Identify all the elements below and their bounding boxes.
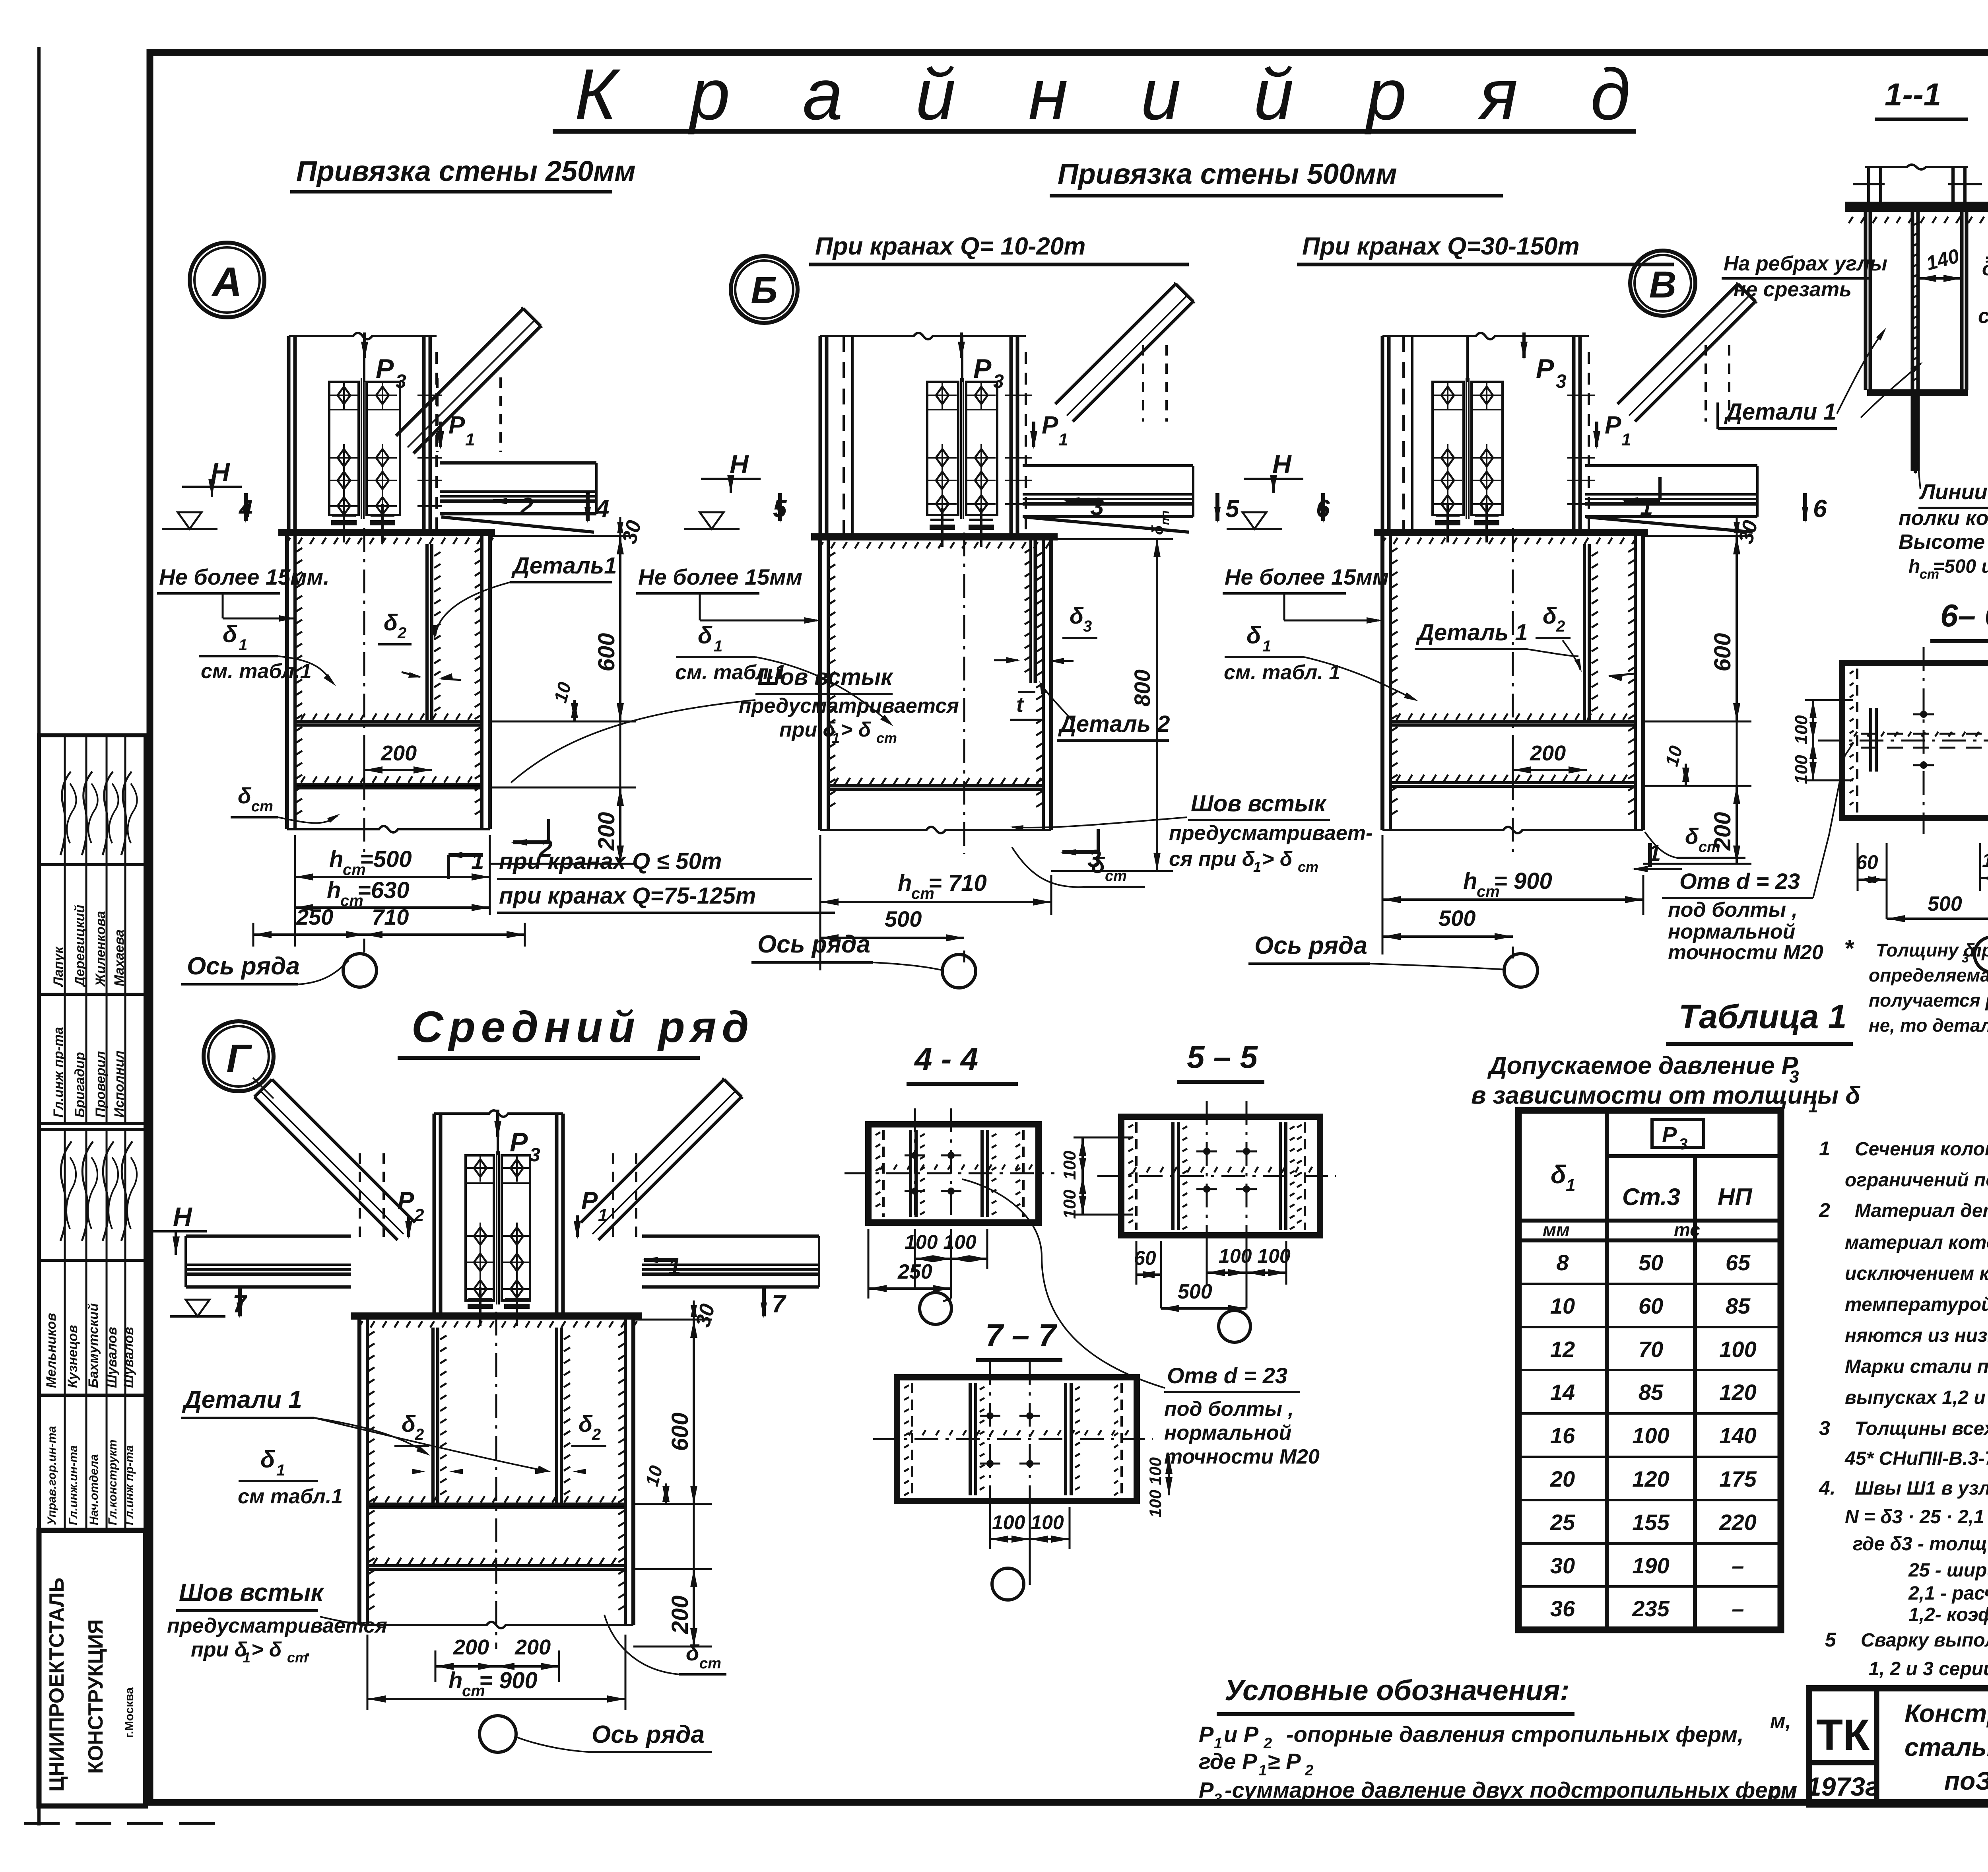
node A: section mark 1 bottom xyxy=(447,848,484,879)
node V: anchor bolts xyxy=(1435,504,1499,542)
svg-text:см. табл. 1: см. табл. 1 xyxy=(1224,661,1340,684)
table 2 footnote xyxy=(1844,935,1988,1036)
svg-text:1: 1 xyxy=(1258,1762,1267,1779)
node A: label delta1 см.табл.1 xyxy=(199,621,336,686)
svg-text:δ: δ xyxy=(238,783,252,808)
svg-text:Р: Р xyxy=(510,1127,528,1157)
svg-text:Р: Р xyxy=(581,1187,598,1215)
node V: label Не более 15мм xyxy=(1223,564,1389,624)
svg-text:Ось ряда: Ось ряда xyxy=(592,1721,705,1748)
svg-text:3: 3 xyxy=(1083,618,1092,635)
node A: upper column and splice xyxy=(289,333,437,529)
svg-text:принимать не менее 10мм Если р: принимать не менее 10мм Если разность, xyxy=(1971,940,1988,960)
svg-text:Бригадир: Бригадир xyxy=(72,1052,87,1118)
svg-text:Исполнил: Исполнил xyxy=(112,1050,127,1118)
svg-text:4.: 4. xyxy=(1819,1477,1836,1499)
svg-text:3: 3 xyxy=(1213,1791,1222,1808)
svg-text:Отв d = 23: Отв d = 23 xyxy=(1679,869,1800,894)
node G: label Шов встык xyxy=(167,1579,387,1666)
svg-text:1973г: 1973г xyxy=(1807,1772,1879,1801)
svg-text:30: 30 xyxy=(1550,1553,1575,1578)
svg-text:175: 175 xyxy=(1719,1466,1757,1491)
node A: load arrow P1 xyxy=(437,412,475,449)
svg-text:выпусках 1,2 и 3 серии 1.424-2: выпусках 1,2 и 3 серии 1.424-2. xyxy=(1845,1387,1988,1408)
svg-text:Махаева: Махаева xyxy=(112,929,127,986)
svg-text:Отв d = 23: Отв d = 23 xyxy=(1167,1363,1287,1388)
node V: lower column box xyxy=(1382,528,1643,854)
svg-text:2,1 - расчетное сопротивлени: 2,1 - расчетное сопротивление стали 3 в … xyxy=(1908,1583,1988,1604)
node A: dim 200 inner xyxy=(364,741,432,780)
node G: cap plate xyxy=(351,1312,642,1328)
section 5-5 axis circle xyxy=(1219,1310,1250,1342)
svg-text:2: 2 xyxy=(519,493,533,521)
node B: anchor bolts xyxy=(930,508,994,547)
node B: datum H left xyxy=(684,449,761,529)
svg-text:ся при δ: ся при δ xyxy=(1169,848,1255,871)
svg-text:250: 250 xyxy=(897,1260,932,1283)
svg-text:ст: ст xyxy=(251,798,273,815)
node circle А xyxy=(190,243,264,317)
svg-text:нормальной: нормальной xyxy=(1164,1421,1291,1444)
node A: cap plate xyxy=(278,529,495,544)
svg-text:К р а й н и й р я д: К р а й н и й р я д xyxy=(575,54,1657,135)
svg-text:60: 60 xyxy=(1856,851,1878,873)
node A: lower column box xyxy=(287,528,490,853)
svg-text:3: 3 xyxy=(1962,951,1969,965)
svg-text:85: 85 xyxy=(1639,1380,1664,1405)
svg-text:Н: Н xyxy=(173,1202,192,1231)
svg-text:Бахмутский: Бахмутский xyxy=(86,1303,101,1388)
svg-text:Р: Р xyxy=(973,354,992,384)
subtitle При кранах Q=10-20т xyxy=(809,233,1189,264)
svg-text:1: 1 xyxy=(276,1462,285,1479)
svg-text:3: 3 xyxy=(530,1145,540,1166)
svg-text:δ: δ xyxy=(579,1411,593,1437)
section 5-5 dims xyxy=(1060,1137,1291,1312)
svg-text:Не более 15мм: Не более 15мм xyxy=(1225,564,1389,589)
svg-text:Н: Н xyxy=(1272,449,1292,479)
node V: flange bolt ticks xyxy=(1567,395,1595,504)
svg-text:Жиленкова: Жиленкова xyxy=(93,911,108,987)
svg-text:600: 600 xyxy=(594,633,619,672)
svg-text:Р: Р xyxy=(1536,354,1554,384)
svg-text:Марки стали принимаются по ука: Марки стали принимаются по указаниям, пр… xyxy=(1845,1356,1988,1377)
svg-text:N = δ3 · 25 · 2,1 · 1.2,: N = δ3 · 25 · 2,1 · 1.2, xyxy=(1845,1507,1988,1528)
svg-text:-опорные давления стропильных: -опорные давления стропильных ферм, xyxy=(1286,1722,1744,1747)
section 5-5 plate xyxy=(1097,1101,1336,1251)
svg-text:16: 16 xyxy=(1550,1423,1575,1448)
node A: anchor bolts xyxy=(331,504,395,542)
svg-text:Ст.3: Ст.3 xyxy=(1622,1184,1680,1210)
svg-text:h: h xyxy=(1908,556,1920,577)
node V: load arrow P3 xyxy=(1520,332,1567,392)
svg-text:Р: Р xyxy=(376,354,394,384)
svg-text:2: 2 xyxy=(592,1426,601,1443)
svg-text:и Р: и Р xyxy=(1224,1722,1259,1747)
svg-text:1: 1 xyxy=(1640,494,1653,520)
svg-text:100: 100 xyxy=(1632,1423,1669,1448)
svg-text:250: 250 xyxy=(296,904,333,929)
svg-text:155: 155 xyxy=(1632,1510,1670,1535)
svg-text:14: 14 xyxy=(1550,1380,1575,1405)
node B: label δ3 xyxy=(994,603,1097,664)
section title 7-7 xyxy=(976,1318,1062,1360)
svg-text:Р: Р xyxy=(1662,1122,1677,1147)
svg-text:100: 100 xyxy=(1719,1337,1756,1362)
section 4-4 dims xyxy=(868,1229,987,1299)
svg-text:65: 65 xyxy=(1726,1250,1751,1275)
svg-text:δ: δ xyxy=(1149,525,1167,535)
svg-text:поЗстропильных ферм: поЗстропильных ферм xyxy=(1944,1767,1988,1795)
svg-text:пп: пп xyxy=(1159,510,1172,525)
svg-text:200: 200 xyxy=(381,741,417,765)
svg-text:1,2- коэффициент запаса пр: 1,2- коэффициент запаса прочности. xyxy=(1908,1604,1988,1625)
svg-text:где δ3 - толщина Детали 2: где δ3 - толщина Детали 2 в см; xyxy=(1853,1534,1988,1555)
node A: axis circle and label xyxy=(181,953,377,987)
svg-text:2: 2 xyxy=(397,624,406,642)
svg-text:точности М20: точности М20 xyxy=(1668,941,1823,964)
svg-text:рм: рм xyxy=(1768,1780,1796,1803)
node A: label Не более 15мм xyxy=(157,564,330,622)
svg-text:500: 500 xyxy=(1928,892,1962,916)
svg-text:Детали 1: Детали 1 xyxy=(182,1386,302,1413)
svg-text:ст: ст xyxy=(1105,868,1127,884)
svg-text:190: 190 xyxy=(1632,1553,1669,1578)
node B: flange bolt ticks xyxy=(1005,395,1032,504)
table 1 header cells xyxy=(1543,1120,1753,1240)
svg-text:5 – 5: 5 – 5 xyxy=(1187,1039,1258,1075)
node B: label Не более 15мм xyxy=(636,564,820,624)
svg-text:120: 120 xyxy=(1632,1466,1669,1491)
svg-text:3: 3 xyxy=(993,371,1004,392)
svg-text:100 100: 100 100 xyxy=(1982,849,1988,871)
node A: section mark 2 bottom xyxy=(511,819,552,863)
node A: flange bolt ticks xyxy=(417,395,442,506)
svg-text:при кранах Q=75-125т: при кранах Q=75-125т xyxy=(499,883,756,909)
node A: section mark 2 top xyxy=(491,493,533,521)
svg-text:1: 1 xyxy=(239,636,247,654)
node V: datum H left xyxy=(1227,449,1303,529)
svg-text:δ: δ xyxy=(1543,603,1557,629)
svg-text:мм: мм xyxy=(1543,1219,1570,1240)
svg-text:235: 235 xyxy=(1632,1596,1670,1621)
svg-text:3: 3 xyxy=(1556,371,1567,392)
svg-text:1: 1 xyxy=(598,1205,608,1225)
svg-text:> δ: > δ xyxy=(251,1638,282,1661)
section 7-7 axis circle xyxy=(992,1568,1024,1600)
svg-text:800: 800 xyxy=(1130,669,1155,706)
svg-text:100 100: 100 100 xyxy=(1146,1457,1165,1518)
svg-text:*: * xyxy=(1844,935,1854,962)
node V: section mark 1 bottom xyxy=(1632,840,1682,872)
node G: roof beam right xyxy=(642,1236,819,1287)
node A: section mark 4 left xyxy=(238,493,252,523)
label Детали 1 for section 1-1 xyxy=(1837,328,1923,418)
svg-text:-суммарное давление двух подст: -суммарное давление двух подстропильных … xyxy=(1225,1777,1797,1802)
svg-text:2: 2 xyxy=(1556,618,1565,635)
section 7-7 plate xyxy=(873,1361,1153,1517)
node G: bottom dims 200 200 hст=900 xyxy=(367,1635,625,1710)
svg-text:не срезать: не срезать xyxy=(1734,278,1852,301)
svg-text:=500: =500 xyxy=(360,846,412,872)
svg-text:см. табл.1: см. табл.1 xyxy=(201,660,312,683)
node V: right dims 30-600-200-10 xyxy=(1643,517,1763,864)
svg-text:Гл.инж пр-та: Гл.инж пр-та xyxy=(51,1027,66,1118)
title block TK xyxy=(1816,1711,1870,1759)
node G: right dims 30-600-10-200 xyxy=(633,1300,720,1647)
svg-text:Не более 15мм: Не более 15мм xyxy=(638,564,802,589)
node V: load arrow P1 xyxy=(1593,412,1631,449)
node V: label Детали 1 top right xyxy=(1718,399,1837,429)
node B: section mark 3 bottom xyxy=(1060,829,1101,873)
title block frame xyxy=(1809,1688,1988,1804)
svg-text:Конструктивное решение оголовк: Конструктивное решение оголовков xyxy=(1905,1699,1988,1728)
svg-text:85: 85 xyxy=(1726,1293,1751,1318)
node V: dim 200 inner xyxy=(1513,741,1587,780)
svg-text:2: 2 xyxy=(1819,1199,1830,1221)
svg-text:4 - 4: 4 - 4 xyxy=(914,1041,978,1077)
table 1 grid xyxy=(1518,1110,1781,1630)
svg-text:25: 25 xyxy=(1550,1510,1575,1535)
svg-text:материал которой принимается п: материал которой принимается по материал… xyxy=(1845,1232,1988,1253)
svg-text:t: t xyxy=(1016,693,1024,717)
svg-text:500: 500 xyxy=(1439,906,1475,931)
svg-text:Р: Р xyxy=(1605,412,1621,439)
svg-text:ЦНИИПРОЕКТСТАЛЬ: ЦНИИПРОЕКТСТАЛЬ xyxy=(45,1578,68,1792)
svg-text:=630: =630 xyxy=(357,877,410,903)
node A: bottom dims hст xyxy=(253,835,525,953)
notes text block xyxy=(1819,1137,1988,1680)
svg-text:Деталь1: Деталь1 xyxy=(511,553,617,579)
node G: roof beam left xyxy=(186,1236,351,1287)
svg-text:Линии обреза: Линии обреза xyxy=(1919,480,1988,504)
svg-text:δ: δ xyxy=(260,1446,275,1473)
node V: label Деталь 1 inside xyxy=(1415,620,1578,656)
node V: roof beam right xyxy=(1585,466,1757,532)
svg-text:2: 2 xyxy=(1305,1762,1313,1779)
svg-text:нормальной: нормальной xyxy=(1668,920,1795,943)
svg-text:Средний ряд: Средний ряд xyxy=(412,1003,755,1052)
node B: load arrow P1 xyxy=(1030,412,1068,449)
svg-text:Г: Г xyxy=(226,1036,252,1081)
svg-text:δ: δ xyxy=(1070,603,1084,629)
node B: diagonal brace xyxy=(1055,282,1195,422)
svg-text:полки колонны при: полки колонны при xyxy=(1899,507,1988,530)
svg-text:7: 7 xyxy=(772,1291,786,1318)
svg-text:.: . xyxy=(305,1638,311,1661)
subtitle Привязка стены 500мм xyxy=(1050,158,1503,196)
svg-text:100 100: 100 100 xyxy=(1219,1245,1291,1267)
node V: axis circle and label xyxy=(1248,932,1538,987)
svg-text:Материал деталей-сталь типа „С: Материал деталей-сталь типа „Сталь3“, за… xyxy=(1855,1200,1988,1221)
svg-text:Н: Н xyxy=(730,449,749,479)
node B: label δст bottom xyxy=(1012,847,1145,887)
svg-text:няются из низколегированной ст: няются из низколегированной стали. xyxy=(1845,1325,1988,1346)
node G: section mark 7 left xyxy=(233,1289,247,1318)
svg-text:100: 100 xyxy=(1060,1151,1079,1180)
svg-text:100: 100 xyxy=(1792,715,1811,745)
svg-text:Ось ряда: Ось ряда xyxy=(187,953,300,980)
svg-text:100: 100 xyxy=(1792,755,1811,784)
svg-text:δ: δ xyxy=(402,1411,416,1437)
left stamp: institute name block xyxy=(39,1530,146,1806)
svg-text:ст: ст xyxy=(699,1655,721,1672)
node B: section mark 5 right xyxy=(1214,493,1240,523)
node B: upper column and splice xyxy=(820,333,1026,533)
label Торцы деталей 1 и 2 строгать xyxy=(1978,207,1988,328)
node V: section mark 6 right xyxy=(1802,493,1827,523)
svg-text:200: 200 xyxy=(1530,741,1566,765)
svg-text:12: 12 xyxy=(1550,1337,1575,1362)
svg-text:определяемая по приведенным в: определяемая по приведенным в таблице фо… xyxy=(1869,965,1988,986)
svg-text:не, то деталь 2 не предусматр: не, то деталь 2 не предусматривается xyxy=(1869,1015,1988,1036)
node G: datum H left xyxy=(145,1202,225,1316)
node G: label δст xyxy=(604,1615,726,1674)
svg-text:1: 1 xyxy=(1566,1176,1575,1195)
svg-text:при кранах Q ≤ 50т: при кранах Q ≤ 50т xyxy=(499,848,722,874)
svg-text:10: 10 xyxy=(1550,1293,1575,1318)
node V: upper column and splice xyxy=(1382,333,1589,529)
node B: axis circle and label xyxy=(751,931,976,988)
svg-text:предусматривает-: предусматривает- xyxy=(1169,822,1373,845)
node A: crane capacity labels xyxy=(497,848,835,913)
svg-text:Деталь 2: Деталь 2 xyxy=(1058,711,1170,737)
svg-text:Привязка стены 250мм: Привязка стены 250мм xyxy=(296,156,636,187)
node G: label delta1 xyxy=(238,1446,343,1508)
node A: datum H and level mark xyxy=(162,457,242,529)
svg-text:предусматривается: предусматривается xyxy=(739,694,959,717)
left stamp: rotated job titles and names xyxy=(44,772,137,1525)
svg-text:5: 5 xyxy=(1825,1629,1837,1651)
svg-text:δ: δ xyxy=(686,1640,700,1665)
svg-text:–: – xyxy=(1732,1553,1744,1578)
subtitle Привязка стены 250мм xyxy=(290,156,636,192)
svg-text:≥ Р: ≥ Р xyxy=(1268,1749,1301,1774)
node V: label δст xyxy=(1645,824,1745,858)
svg-text:На ребрах углы: На ребрах углы xyxy=(1724,252,1887,275)
node A: section mark 4 right xyxy=(584,493,609,523)
svg-text:ограничений по высоте стенки,: ограничений по высоте стенки, приведенны… xyxy=(1845,1170,1988,1191)
node G: anchor bolts xyxy=(468,1287,530,1326)
svg-text:строгать: строгать xyxy=(1978,305,1988,328)
node G: labels delta2 xyxy=(394,1411,606,1474)
node V: label На ребрах углы не срезать xyxy=(1722,252,1887,301)
node A: roof beam right xyxy=(440,463,596,532)
svg-text:Ось ряда: Ось ряда xyxy=(1254,932,1367,959)
svg-text:м,: м, xyxy=(1770,1710,1791,1733)
node G: upper column and splice xyxy=(434,1110,563,1312)
svg-text:δ: δ xyxy=(1685,824,1699,849)
svg-text:Деталь 1: Деталь 1 xyxy=(1415,620,1528,645)
svg-text:25 - ширина детали 2 в см: 25 - ширина детали 2 в см; xyxy=(1908,1560,1988,1581)
svg-text:> δ: > δ xyxy=(1262,848,1293,871)
table 1 data xyxy=(1550,1250,1757,1621)
svg-text:Нач.отдела: Нач.отдела xyxy=(87,1454,101,1525)
svg-text:Р: Р xyxy=(1042,412,1058,439)
svg-text:Детали 1: Детали 1 xyxy=(1724,399,1837,425)
svg-text:60: 60 xyxy=(1639,1293,1663,1318)
section 6-6 axis circle xyxy=(1974,937,1988,972)
svg-text:под болты ,: под болты , xyxy=(1668,898,1798,921)
section title 5-5 xyxy=(1177,1039,1264,1082)
node B: cap plate xyxy=(811,533,1058,548)
svg-text:= 900: = 900 xyxy=(1494,868,1552,894)
svg-text:600: 600 xyxy=(1710,633,1736,672)
torn edge stub bottom-left xyxy=(24,1822,223,1825)
svg-text:20: 20 xyxy=(1550,1466,1575,1491)
svg-text:600: 600 xyxy=(667,1413,693,1451)
table 1 header text xyxy=(1471,1052,1860,1116)
svg-text:140: 140 xyxy=(1719,1423,1756,1448)
node V: label delta1 xyxy=(1224,622,1418,701)
svg-text:120: 120 xyxy=(1719,1380,1756,1405)
node A: diagonal brace xyxy=(396,307,542,453)
node A: label δст xyxy=(231,783,340,823)
svg-text:h: h xyxy=(329,846,343,872)
subtitle Средний ряд xyxy=(398,1003,755,1058)
svg-text:ст: ст xyxy=(876,730,897,746)
subtitle При кранах Q=30-150т xyxy=(1297,233,1674,264)
svg-text:3: 3 xyxy=(1679,1135,1687,1153)
svg-text:под болты ,: под болты , xyxy=(1164,1398,1294,1421)
legend title xyxy=(1217,1675,1574,1714)
section 6-6 dims xyxy=(1792,700,1988,922)
svg-text:1: 1 xyxy=(1621,430,1631,449)
node G: section mark 7 right xyxy=(761,1289,786,1318)
legend tail word ферм, xyxy=(1768,1710,1796,1803)
svg-text:1, 2 и 3 серии 1.424-2.: 1, 2 и 3 серии 1.424-2. xyxy=(1869,1658,1988,1680)
node V: cap plate xyxy=(1374,529,1648,544)
svg-text:70: 70 xyxy=(1639,1337,1663,1362)
node V: label delta2 xyxy=(1536,603,1634,681)
svg-text:Кузнецов: Кузнецов xyxy=(65,1325,80,1388)
svg-text:4: 4 xyxy=(595,495,609,523)
svg-text:3: 3 xyxy=(1819,1417,1830,1439)
svg-text:Ось ряда: Ось ряда xyxy=(757,931,870,958)
svg-text:1: 1 xyxy=(243,1649,250,1666)
svg-text:ст: ст xyxy=(287,1649,308,1666)
svg-text:Б: Б xyxy=(751,269,777,311)
node G: load arrow P2 left xyxy=(398,1187,424,1239)
svg-text:h: h xyxy=(1463,868,1477,894)
node B: dim 800 right xyxy=(1051,510,1173,871)
svg-text:ТК: ТК xyxy=(1816,1711,1870,1759)
svg-text:1--1: 1--1 xyxy=(1885,77,1941,112)
svg-text:см. табл.1: см. табл.1 xyxy=(675,661,786,684)
node G: diagonal brace left xyxy=(253,1078,415,1240)
svg-text:δ: δ xyxy=(223,621,237,647)
svg-text:200: 200 xyxy=(594,812,619,851)
label Отв d=23 под болты центр xyxy=(962,1179,1320,1468)
node B: section mark 3 top xyxy=(1064,493,1104,521)
node G: label Детали 1 xyxy=(181,1386,552,1472)
svg-text:НП: НП xyxy=(1718,1184,1753,1210)
svg-text:Р: Р xyxy=(398,1187,414,1215)
svg-text:δ: δ xyxy=(698,622,712,649)
svg-text:6– 6: 6– 6 xyxy=(1940,598,1988,633)
svg-text:2: 2 xyxy=(415,1426,424,1443)
svg-text:Швы Ш1 в узле (Б)следует рассч: Швы Ш1 в узле (Б)следует рассчитывать на… xyxy=(1855,1478,1988,1499)
svg-text:Лапук: Лапук xyxy=(51,946,66,988)
svg-text:1: 1 xyxy=(714,638,722,655)
svg-text:1: 1 xyxy=(1058,430,1068,449)
svg-text:5: 5 xyxy=(1225,495,1240,523)
table 1 title xyxy=(1666,998,1853,1044)
svg-text:Гл.конструкт: Гл.конструкт xyxy=(106,1440,119,1525)
label Линии обреза xyxy=(1899,418,1988,582)
node G: load arrow P3 xyxy=(494,1110,540,1166)
section title 1-1 xyxy=(1875,77,1968,119)
